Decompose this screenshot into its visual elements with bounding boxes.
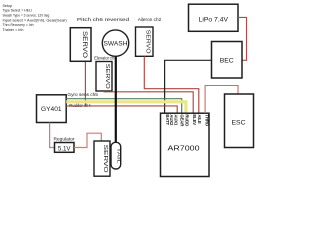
gyro GY401	[37, 95, 67, 123]
svg-text:TAIL: TAIL	[116, 148, 121, 165]
svg-text:Gyro sens ch5: Gyro sens ch5	[67, 92, 98, 98]
svg-text:RUDD: RUDD	[185, 114, 190, 126]
receiver pin labels	[165, 114, 210, 127]
wire LiPo to BEC (red)	[238, 17, 247, 60]
svg-text:Regulator: Regulator	[54, 136, 75, 142]
svg-text:SWASH: SWASH	[104, 40, 128, 47]
svg-text:ELEV: ELEV	[192, 114, 197, 125]
svg-text:SERVO: SERVO	[102, 145, 108, 174]
swash plate	[102, 30, 128, 56]
svg-text:Input select = Aux2(Inh), Gear: Input select = Aux2(Inh), Gear(Gear)	[3, 18, 67, 22]
svg-text:ESC: ESC	[232, 119, 246, 126]
wire gyro sens ch5 to RUDD pin (green)	[66, 99, 182, 114]
svg-text:Swash Type = 3 servos, 120 deg: Swash Type = 3 servos, 120 deg	[3, 13, 50, 17]
servo aileron ch2	[136, 27, 154, 56]
wire regulator to tail servo (red)	[74, 133, 101, 147]
servo pitch ch6	[70, 28, 91, 62]
wire elevator servo to ELEV pin (red)	[104, 91, 193, 113]
regulator 5.1V	[55, 143, 75, 153]
svg-text:AUX2: AUX2	[169, 114, 174, 126]
wire aileron servo to AILE pin (red)	[144, 56, 199, 113]
BEC U1	[212, 42, 243, 79]
wire pitch servo to rudder line (red vertical)	[84, 61, 86, 106]
svg-text:THRO: THRO	[204, 114, 209, 126]
setup notes text block	[3, 4, 67, 32]
svg-text:Pitch ch6 reversed: Pitch ch6 reversed	[77, 17, 130, 22]
wire BEC to receiver BATT pin (black)	[165, 60, 212, 113]
wire rudder ch4 from GY401 to GEAR pin (red) with pitch junction	[66, 106, 177, 113]
svg-text:Thro Recovery = Inh: Thro Recovery = Inh	[3, 23, 34, 27]
svg-text:GY401: GY401	[41, 106, 62, 113]
svg-text:Elevator ch3: Elevator ch3	[94, 55, 117, 61]
svg-text:SERVO: SERVO	[144, 30, 150, 55]
svg-text:GEAR: GEAR	[179, 114, 184, 127]
svg-text:Trainer = Inh: Trainer = Inh	[3, 28, 24, 32]
battery LiPo 7.4V	[189, 4, 239, 31]
svg-text:BEC: BEC	[220, 57, 234, 64]
tail rotor TAIL	[111, 142, 121, 169]
svg-text:AILE: AILE	[197, 114, 202, 123]
svg-text:SERVO: SERVO	[104, 64, 110, 90]
servo elevator ch3	[96, 62, 112, 92]
swash plate main shaft (thick black wire)	[115, 56, 117, 143]
servo tail	[94, 141, 110, 176]
svg-text:Aileron ch2: Aileron ch2	[138, 17, 162, 23]
svg-text:Type Select = HELI: Type Select = HELI	[3, 9, 32, 13]
svg-text:SERVO: SERVO	[81, 31, 87, 58]
svg-text:AR7000: AR7000	[168, 146, 200, 153]
receiver AR7000	[161, 113, 210, 176]
wire gain lead to ELEV pin (yellow)	[66, 102, 186, 113]
wire THRO pin to ESC (red)	[205, 86, 238, 114]
svg-text:5.1V: 5.1V	[58, 145, 72, 152]
svg-text:AUX1: AUX1	[173, 114, 178, 126]
ESC	[225, 94, 254, 148]
svg-text:LiPo 7.4V: LiPo 7.4V	[199, 16, 229, 23]
wire GY401 to regulator 5.1V (red)	[50, 123, 55, 148]
svg-text:Setup: Setup	[3, 4, 13, 8]
